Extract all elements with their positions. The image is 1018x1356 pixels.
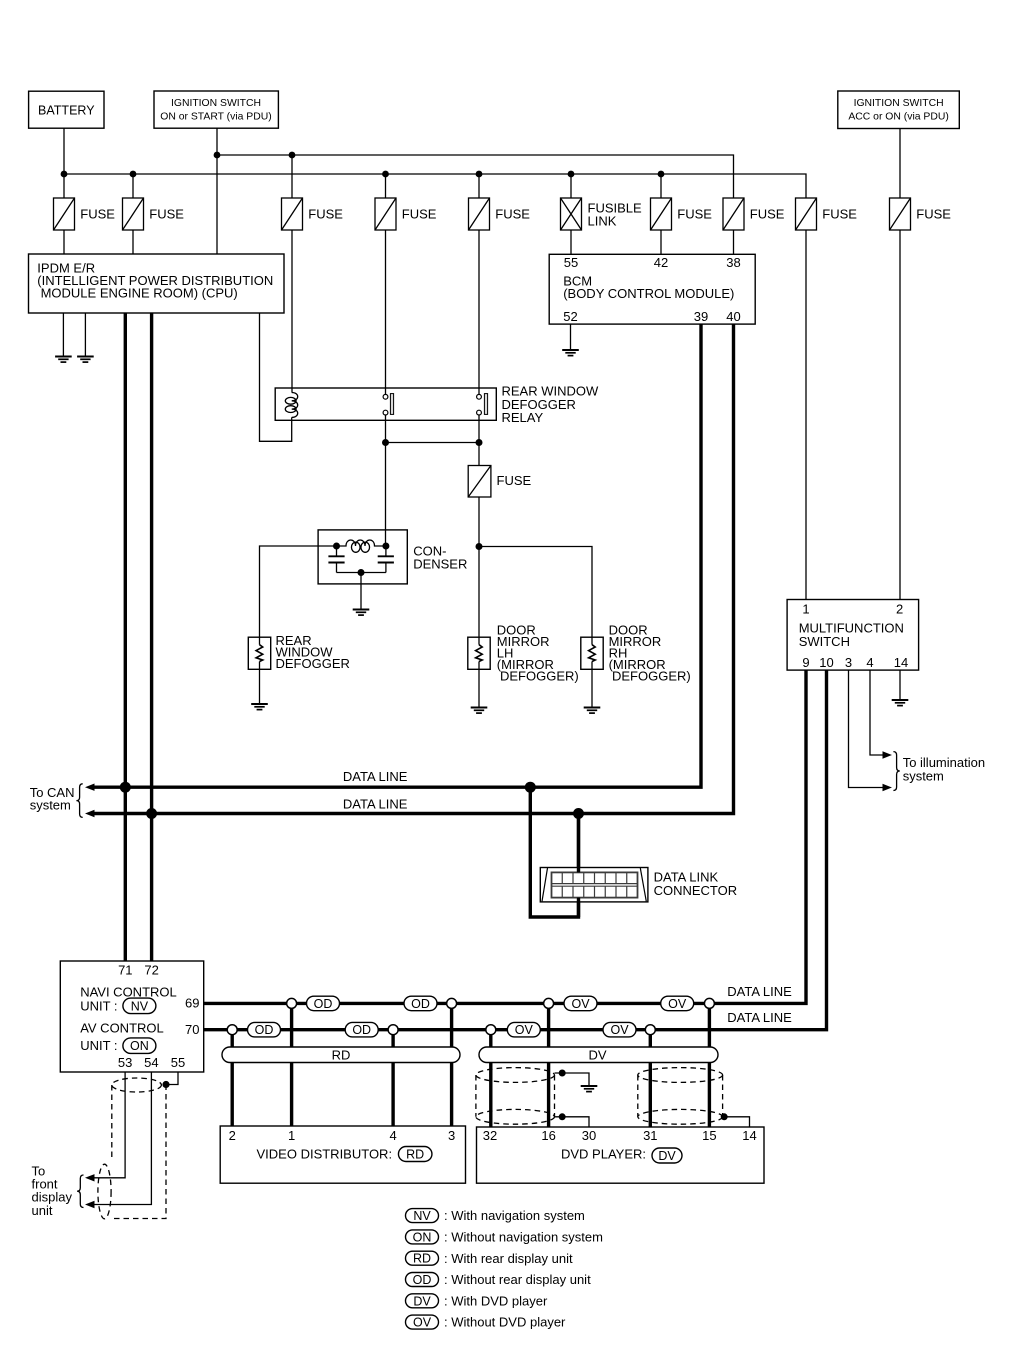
svg-text:: Without DVD player: : Without DVD player bbox=[444, 1315, 566, 1330]
fuse 4 bbox=[375, 198, 396, 230]
fuse 8 bbox=[796, 198, 817, 230]
svg-text:3: 3 bbox=[448, 1128, 455, 1143]
wire multifunction switch 4 to illumination bbox=[870, 670, 884, 755]
wire to video distributor 1 bbox=[290, 1003, 293, 1126]
wire battery to fuse bbox=[63, 128, 65, 198]
wire relay contact bottoms bbox=[386, 442, 480, 444]
wire navi 70 data line to multifunction switch 10 bbox=[204, 670, 827, 1030]
svg-text:4: 4 bbox=[389, 1128, 396, 1143]
svg-text:DENSER: DENSER bbox=[413, 557, 467, 572]
option tag OV a bbox=[564, 996, 597, 1011]
svg-text:OV: OV bbox=[571, 997, 590, 1011]
wire condenser cap 2 lead top bbox=[385, 546, 387, 556]
wire to video distributor 2 bbox=[230, 1030, 233, 1126]
svg-text:BATTERY: BATTERY bbox=[38, 104, 95, 118]
wire multifunction switch 14 to ground bbox=[899, 670, 901, 700]
ground door mirror LH bbox=[471, 708, 488, 714]
svg-text:system: system bbox=[30, 798, 71, 813]
legend RD bbox=[406, 1251, 439, 1266]
condenser capacitor 2 bbox=[378, 556, 394, 562]
svg-text:2: 2 bbox=[896, 601, 903, 616]
IPDM E/R box bbox=[29, 254, 285, 313]
fuse 9 bbox=[890, 198, 911, 230]
wire condenser bottom bbox=[337, 572, 386, 574]
junction bus at fuse 4 bbox=[382, 171, 389, 178]
junction condenser right bbox=[382, 543, 389, 550]
ground multifunction switch 14 bbox=[892, 700, 909, 706]
wire data line 1 to data link connector bbox=[530, 787, 578, 917]
wire condenser to rear window defogger bbox=[260, 546, 337, 645]
junction DVD shield 2 bbox=[721, 1113, 728, 1120]
wire CAN IPDM to navi 72 bbox=[150, 313, 153, 961]
wire door mirror RH to ground bbox=[591, 662, 593, 708]
svg-text:69: 69 bbox=[185, 996, 199, 1011]
node DVD player 15 bbox=[704, 998, 714, 1008]
resistor door mirror RH bbox=[581, 637, 603, 669]
svg-text:: Without rear display unit: : Without rear display unit bbox=[444, 1272, 591, 1287]
svg-text:RD: RD bbox=[332, 1047, 351, 1062]
svg-text:UNIT :: UNIT : bbox=[80, 999, 117, 1014]
svg-text:NV: NV bbox=[131, 999, 149, 1013]
svg-text:71: 71 bbox=[118, 963, 132, 978]
svg-text:32: 32 bbox=[483, 1128, 497, 1143]
wire multifunction switch 3 to illumination bbox=[849, 670, 885, 788]
ground rear window defogger bbox=[251, 704, 268, 710]
wire battery bus bbox=[64, 174, 806, 198]
svg-text:1: 1 bbox=[288, 1128, 295, 1143]
node DVD player 32 bbox=[486, 1025, 496, 1035]
junction DVD shield 1 top bbox=[559, 1070, 566, 1077]
arrow to front display 2 bbox=[85, 1201, 95, 1208]
junction relay contact 2 bottom bbox=[476, 439, 483, 446]
wire ignition switch ACC to fuse bbox=[899, 129, 901, 199]
svg-text:IGNITION SWITCH: IGNITION SWITCH bbox=[171, 98, 261, 109]
svg-text:OV: OV bbox=[413, 1316, 432, 1330]
svg-text:OD: OD bbox=[352, 1023, 371, 1037]
svg-text:15: 15 bbox=[702, 1128, 716, 1143]
node video distributor 3 bbox=[447, 998, 457, 1008]
legend ON bbox=[406, 1230, 439, 1245]
wire fuse 8 to multifunction switch 1 bbox=[805, 230, 807, 600]
svg-text:VIDEO DISTRIBUTOR:: VIDEO DISTRIBUTOR: bbox=[257, 1147, 393, 1162]
junction relay contact 1 bottom bbox=[382, 439, 389, 446]
ignition switch ON/START box bbox=[154, 91, 278, 128]
svg-text:DEFOGGER: DEFOGGER bbox=[276, 656, 350, 671]
svg-text:DATA LINE: DATA LINE bbox=[727, 1010, 792, 1025]
wire to video distributor 4 bbox=[391, 1030, 394, 1126]
svg-text:2: 2 bbox=[229, 1128, 236, 1143]
option tag RD video distributor bbox=[398, 1147, 432, 1162]
junction condenser left bbox=[333, 543, 340, 550]
junction navi shield bbox=[162, 1081, 169, 1088]
wire bus to fuse 4 bbox=[385, 174, 387, 198]
junction bus at fuse 2 bbox=[130, 171, 137, 178]
wire to DVD player 16 bbox=[547, 1003, 550, 1127]
svg-text:RD: RD bbox=[406, 1148, 424, 1162]
wire condenser cap 1 lead bottom bbox=[336, 563, 338, 573]
fuse 10 (mirror defogger) bbox=[468, 466, 491, 498]
svg-text:38: 38 bbox=[726, 255, 740, 270]
wire node to door mirror LH bbox=[478, 547, 480, 645]
wire data line 1 to BCM 39 bbox=[94, 324, 702, 787]
svg-text:ACC or ON (via PDU): ACC or ON (via PDU) bbox=[848, 111, 948, 122]
wire condenser cap 1 lead top bbox=[336, 546, 338, 556]
svg-text:53: 53 bbox=[118, 1055, 132, 1070]
rear window defogger relay box bbox=[275, 388, 496, 420]
brace To illumination system bbox=[893, 752, 899, 791]
wire fuse 2 to IPDM bbox=[132, 230, 134, 254]
fuse 1 (battery) bbox=[54, 198, 75, 230]
video distributor box bbox=[220, 1126, 465, 1183]
wire fuse 9 to multifunction switch 2 bbox=[899, 230, 901, 600]
svg-text:AV CONTROL: AV CONTROL bbox=[80, 1021, 164, 1036]
DV bus bar bbox=[479, 1047, 718, 1063]
wire fuse 3 to relay coil bbox=[291, 230, 293, 393]
shield navi to front display unit bbox=[98, 1078, 166, 1219]
wire condenser cap 2 lead bottom bbox=[385, 563, 387, 573]
relay contact 2 bbox=[477, 394, 488, 415]
svg-text:FUSE: FUSE bbox=[308, 207, 343, 222]
wire IPDM to ground 2 bbox=[84, 313, 86, 357]
shield DVD player 32/16 bbox=[476, 1068, 555, 1125]
wire DVD shield 1 to ground bbox=[555, 1073, 590, 1086]
svg-text:55: 55 bbox=[564, 255, 578, 270]
svg-text:FUSE: FUSE bbox=[149, 207, 184, 222]
junction ignition bus bbox=[214, 152, 221, 159]
svg-text:RELAY: RELAY bbox=[502, 410, 544, 425]
svg-text:DATA LINE: DATA LINE bbox=[727, 984, 792, 999]
svg-text:3: 3 bbox=[845, 655, 852, 670]
junction condenser ground bbox=[358, 569, 365, 576]
wire fuse 5 to relay contact 2 bbox=[478, 230, 480, 394]
option tag NV navi bbox=[123, 998, 156, 1014]
arrow to illumination 2 bbox=[883, 784, 893, 791]
fusible link bbox=[561, 198, 582, 230]
fuse 6 bbox=[651, 198, 672, 230]
arrow to CAN system 2 bbox=[85, 810, 95, 817]
junction bus to fuse 3 bbox=[289, 152, 296, 159]
option tag OD c bbox=[248, 1022, 281, 1037]
svg-text:FUSE: FUSE bbox=[677, 207, 712, 222]
wire navi 69 data line to multifunction switch 9 bbox=[204, 670, 806, 1003]
wire fuse to mirror node bbox=[478, 497, 480, 547]
wire data link connector stubs bbox=[577, 814, 580, 918]
svg-text:FUSE: FUSE bbox=[916, 207, 951, 222]
svg-text:: With rear display unit: : With rear display unit bbox=[444, 1251, 573, 1266]
fuse 5 bbox=[469, 198, 490, 230]
BCM box bbox=[549, 254, 755, 324]
wire to DVD player 32 bbox=[489, 1030, 492, 1127]
node video distributor 4 bbox=[388, 1025, 398, 1035]
svg-text:54: 54 bbox=[144, 1055, 158, 1070]
wire ignition switch to IPDM bbox=[216, 128, 218, 254]
svg-text:: With DVD player: : With DVD player bbox=[444, 1293, 548, 1308]
wire data line 2 to data link connector bbox=[577, 814, 580, 873]
wire IPDM to ground 1 bbox=[62, 313, 64, 357]
svg-text:9: 9 bbox=[802, 655, 809, 670]
option tag OD b bbox=[404, 996, 437, 1011]
svg-text:31: 31 bbox=[643, 1128, 657, 1143]
wire navi 53 to front display bbox=[94, 1072, 126, 1178]
wire bus to fuse 5 bbox=[478, 174, 480, 198]
svg-text:OD: OD bbox=[413, 1273, 432, 1287]
fuse 7 bbox=[723, 198, 744, 230]
junction DVD shield 1 bottom bbox=[559, 1113, 566, 1120]
svg-text:NAVI CONTROL: NAVI CONTROL bbox=[80, 984, 177, 999]
option tag OD d bbox=[345, 1022, 378, 1037]
wire DVD shield 1 to pin 30 bbox=[555, 1117, 590, 1127]
svg-text:IGNITION SWITCH: IGNITION SWITCH bbox=[854, 98, 944, 109]
ground condenser bbox=[353, 610, 370, 616]
fuse 2 bbox=[123, 198, 144, 230]
svg-text:ON: ON bbox=[130, 1039, 149, 1053]
relay coil bbox=[285, 393, 297, 418]
svg-text:16: 16 bbox=[541, 1128, 555, 1143]
wire navi 55 to shield bbox=[166, 1072, 178, 1085]
svg-text:14: 14 bbox=[894, 655, 908, 670]
arrow to CAN system 1 bbox=[85, 784, 95, 791]
svg-text:FUSE: FUSE bbox=[402, 207, 437, 222]
svg-text:DV: DV bbox=[658, 1149, 676, 1163]
ground IPDM 1 bbox=[55, 357, 72, 363]
svg-text:55: 55 bbox=[171, 1055, 185, 1070]
node DVD player 31 bbox=[645, 1025, 655, 1035]
wire fuse 4 to relay contact 1 bbox=[385, 230, 387, 394]
junction bus at fuse 5 bbox=[476, 171, 483, 178]
wire DVD shield 2 to pin 14 bbox=[723, 1117, 750, 1127]
wire node to door mirror RH bbox=[479, 547, 592, 645]
condenser box bbox=[318, 530, 407, 584]
wire relay contact 2 to fuse bbox=[478, 415, 480, 466]
wire fuse 6 to BCM 42 bbox=[660, 230, 662, 254]
condenser inductor bbox=[337, 540, 386, 552]
svg-text:OV: OV bbox=[668, 997, 687, 1011]
condenser capacitor 1 bbox=[328, 556, 344, 562]
multifunction switch box bbox=[787, 600, 919, 671]
svg-text:70: 70 bbox=[185, 1022, 199, 1037]
wire condenser to ground bbox=[360, 573, 362, 610]
wire fuse 7 to BCM 38 bbox=[733, 230, 735, 254]
wire to DVD player 15 bbox=[708, 1003, 711, 1127]
option tag OD a bbox=[307, 996, 340, 1011]
svg-text:RD: RD bbox=[413, 1252, 431, 1266]
svg-text:: Without navigation system: : Without navigation system bbox=[444, 1230, 603, 1245]
svg-text:72: 72 bbox=[144, 963, 158, 978]
svg-text:DV: DV bbox=[413, 1294, 431, 1308]
svg-text:DEFOGGER): DEFOGGER) bbox=[500, 669, 579, 684]
svg-text:42: 42 bbox=[654, 255, 668, 270]
arrow to front display 1 bbox=[85, 1174, 95, 1181]
legend OV bbox=[406, 1315, 439, 1330]
svg-text:OD: OD bbox=[255, 1023, 274, 1037]
svg-text:1: 1 bbox=[802, 601, 809, 616]
svg-text:40: 40 bbox=[726, 309, 740, 324]
wire bus to fusible link bbox=[570, 174, 572, 198]
svg-text:DV: DV bbox=[588, 1047, 606, 1062]
wire to video distributor 3 bbox=[450, 1003, 453, 1126]
svg-text:unit: unit bbox=[32, 1203, 53, 1218]
svg-text:CONNECTOR: CONNECTOR bbox=[654, 883, 738, 898]
svg-text:FUSE: FUSE bbox=[822, 207, 857, 222]
resistor door mirror LH bbox=[468, 637, 490, 669]
svg-text:: With navigation system: : With navigation system bbox=[444, 1208, 585, 1223]
junction data line 2 connector tap bbox=[573, 808, 584, 819]
option tag OV c bbox=[507, 1022, 540, 1037]
RD bus bar bbox=[222, 1047, 460, 1063]
svg-text:LINK: LINK bbox=[588, 213, 617, 228]
legend NV bbox=[406, 1209, 439, 1224]
node video distributor 2 bbox=[227, 1025, 237, 1035]
DVD player box bbox=[477, 1127, 765, 1183]
wire BCM 52 to ground bbox=[570, 324, 572, 350]
relay contact 1 bbox=[383, 394, 394, 415]
option tag OV d bbox=[603, 1022, 636, 1037]
ground BCM 52 bbox=[562, 350, 579, 356]
junction data line 1 navi 71 bbox=[120, 782, 131, 793]
svg-text:4: 4 bbox=[866, 655, 873, 670]
wire to DVD player 31 bbox=[649, 1030, 652, 1127]
wire bus to fuse 2 bbox=[132, 174, 134, 198]
svg-text:OD: OD bbox=[314, 997, 333, 1011]
svg-text:OV: OV bbox=[515, 1023, 534, 1037]
wire ignition bus bbox=[217, 155, 734, 198]
wire fusible link to BCM 55 bbox=[570, 230, 572, 254]
svg-text:10: 10 bbox=[819, 655, 833, 670]
option tag DV DVD player bbox=[652, 1148, 682, 1163]
svg-text:NV: NV bbox=[413, 1209, 431, 1223]
ignition switch ACC/ON box bbox=[838, 91, 960, 129]
junction bus at fusible link bbox=[568, 171, 575, 178]
option tag ON navi bbox=[123, 1038, 156, 1054]
svg-text:52: 52 bbox=[563, 309, 577, 324]
shield DVD player 31/15 bbox=[638, 1068, 723, 1125]
svg-text:ON: ON bbox=[413, 1230, 432, 1244]
legend OD bbox=[406, 1273, 439, 1288]
wire navi 54 to front display bbox=[94, 1072, 152, 1205]
svg-text:system: system bbox=[903, 768, 944, 783]
svg-text:FUSE: FUSE bbox=[80, 207, 115, 222]
svg-text:FUSE: FUSE bbox=[495, 207, 530, 222]
svg-text:SWITCH: SWITCH bbox=[799, 634, 850, 649]
junction data line 1 connector tap bbox=[525, 782, 536, 793]
brace To CAN system bbox=[76, 784, 82, 818]
wire CAN IPDM to navi 71 bbox=[124, 313, 127, 961]
svg-text:DVD PLAYER:: DVD PLAYER: bbox=[561, 1147, 646, 1162]
node DVD player 16 bbox=[544, 998, 554, 1008]
svg-text:OV: OV bbox=[610, 1023, 629, 1037]
ground DVD shield bbox=[581, 1086, 598, 1092]
svg-text:FUSE: FUSE bbox=[750, 207, 785, 222]
svg-text:14: 14 bbox=[742, 1128, 756, 1143]
navi/AV control unit box bbox=[60, 961, 203, 1072]
junction bus at fuse 6 bbox=[658, 171, 665, 178]
ground door mirror RH bbox=[584, 708, 601, 714]
wire relay coil to IPDM bbox=[260, 313, 292, 441]
brace To front display unit bbox=[77, 1175, 83, 1208]
svg-text:UNIT :: UNIT : bbox=[80, 1038, 117, 1053]
option tag OV b bbox=[661, 996, 694, 1011]
junction mirror node bbox=[476, 543, 483, 550]
fuse 3 (relay coil) bbox=[282, 198, 303, 230]
wire bus to fuse 3 bbox=[291, 155, 293, 198]
wire relay contact 1 to condenser bbox=[385, 415, 387, 546]
wire fuse 1 to IPDM bbox=[63, 230, 65, 254]
wire bus to fuse 6 bbox=[660, 174, 662, 198]
wire door mirror LH to ground bbox=[478, 662, 480, 708]
data link connector bbox=[540, 868, 648, 902]
wire data line 2 to BCM 40 bbox=[94, 324, 734, 814]
svg-text:OD: OD bbox=[411, 997, 430, 1011]
svg-text:DATA LINE: DATA LINE bbox=[343, 797, 408, 812]
svg-text:FUSE: FUSE bbox=[497, 473, 532, 488]
resistor rear window defogger bbox=[248, 637, 270, 669]
svg-text:ON or START (via PDU): ON or START (via PDU) bbox=[160, 111, 271, 122]
svg-text:DATA LINE: DATA LINE bbox=[343, 769, 408, 784]
legend DV bbox=[406, 1294, 439, 1309]
wire rear window defogger to ground bbox=[259, 662, 261, 705]
svg-text:MODULE ENGINE ROOM) (CPU): MODULE ENGINE ROOM) (CPU) bbox=[41, 286, 238, 301]
svg-text:39: 39 bbox=[694, 309, 708, 324]
ground IPDM 2 bbox=[77, 357, 94, 363]
svg-text:DEFOGGER): DEFOGGER) bbox=[612, 669, 691, 684]
battery box bbox=[29, 91, 104, 128]
junction data line 2 navi 72 bbox=[146, 808, 157, 819]
svg-text:(BODY CONTROL MODULE): (BODY CONTROL MODULE) bbox=[563, 286, 734, 301]
arrow to illumination 1 bbox=[883, 751, 893, 758]
svg-text:30: 30 bbox=[582, 1128, 596, 1143]
junction bus at battery bus bbox=[61, 171, 68, 178]
node video distributor 1 bbox=[287, 998, 297, 1008]
